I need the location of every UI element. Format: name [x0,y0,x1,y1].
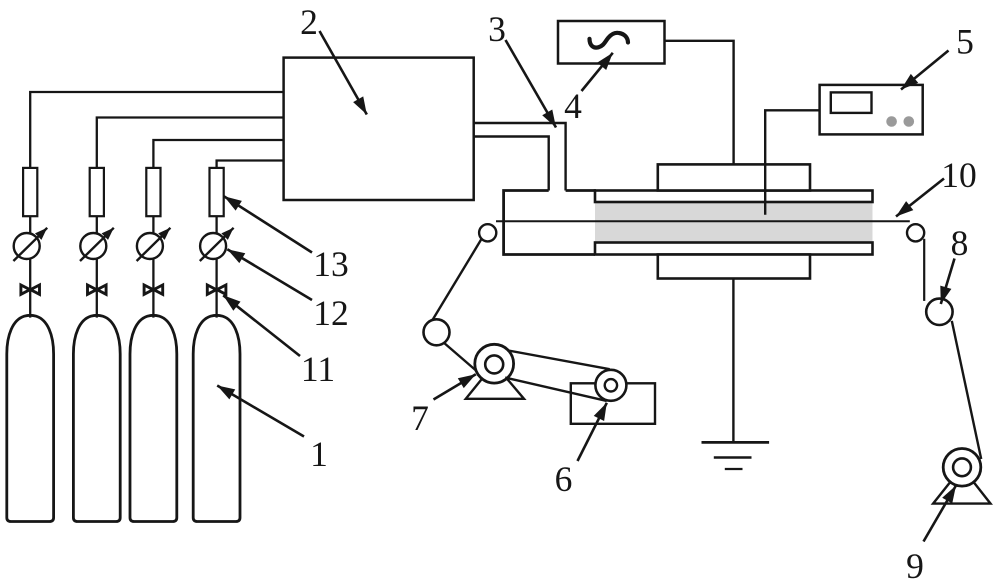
wire U4 to top electrode [665,41,734,165]
web segment idler to roller 7 [445,343,478,372]
pressure regulator 12 (line 4) [200,233,226,259]
web vertical right of chamber [923,239,925,301]
flow meter 13 (line 4) [210,168,224,216]
wire gas line 2 to controller [97,118,284,168]
top electrode block [658,164,810,190]
svg-text:7: 7 [411,398,429,438]
svg-text:12: 12 [313,293,349,333]
monitor U5 button 2 [904,116,915,127]
label 1 leader [217,386,304,437]
label 10 leader [896,179,944,217]
svg-text:4: 4 [564,86,582,126]
label 2 leader [320,31,367,115]
idler roller [424,319,450,345]
guide roller left of chamber [479,224,496,241]
monitor U5 screen [831,92,872,113]
web segment left roller to idler [429,239,482,326]
wire line 1 vertical through regulator [29,216,31,317]
valve 11 (line 4) [207,285,226,294]
label 6 leader [578,403,607,461]
roller 9 stand [933,467,990,503]
gas cylinder 1 (line 4) [193,315,240,521]
svg-text:2: 2 [300,2,318,42]
pipe 3 outer wall [474,123,566,191]
gas mixing controller U2 [284,58,474,200]
svg-text:6: 6 [555,459,573,499]
web segment roller 8 to roller 9 [952,321,981,459]
ground [702,441,770,444]
gas cylinder 1 (line 1) [7,315,54,521]
label 13 leader [224,196,312,252]
valve 11 (line 3) [144,285,163,294]
label 3 leader [506,40,557,128]
svg-text:5: 5 [956,22,974,62]
sine symbol in U4 [590,33,629,48]
monitor U5 [820,85,923,134]
roller 7 [475,344,514,383]
valve 11 (line 1) [21,285,40,294]
label 11 leader [223,295,300,356]
flow meter 13 (line 1) [23,168,37,216]
belt upper roller 7 to roller 6 [507,350,609,369]
gas cylinder 1 (line 2) [73,315,120,521]
svg-text:11: 11 [301,349,335,389]
label 9 leader [924,486,957,542]
flow meter 13 (line 2) [90,168,104,216]
film web 10 through chamber [496,220,910,222]
bottom electrode block [658,255,810,279]
guide roller right of chamber [907,224,924,241]
svg-text:8: 8 [951,223,969,263]
wire bottom electrode to ground [732,279,734,443]
drive unit box 6 [571,383,655,424]
label 12 leader [227,249,312,300]
top electrode plate [595,191,873,203]
monitor U5 button 1 [886,116,897,127]
wire line 3 vertical through regulator [152,216,154,317]
flow meter 13 (line 3) [146,168,160,216]
roller 8 [926,299,952,325]
roller 6 [595,370,626,401]
label 8 leader [941,259,955,305]
chamber end cap top right segment [566,189,596,192]
pressure regulator 12 (line 1) [14,233,40,259]
label 7 leader [434,374,476,399]
svg-text:1: 1 [310,434,328,474]
wire U5 probe into chamber [765,110,819,214]
plasma zone (grey) [595,202,873,244]
pipe 3 inner wall [474,137,549,191]
pressure regulator 12 (line 2) [80,233,106,259]
pressure regulator 12 (line 3) [137,233,163,259]
label 4 leader [582,53,613,91]
wire gas line 1 to controller [30,92,283,168]
svg-text:13: 13 [313,244,349,284]
svg-text:3: 3 [488,9,506,49]
roller 9 [943,449,981,487]
bottom electrode plate [595,243,873,255]
svg-text:10: 10 [941,155,977,195]
roller 7 stand [466,364,524,399]
valve 11 (line 2) [88,285,107,294]
belt lower roller 7 to roller 6 [505,378,607,401]
chamber end cap left wall [504,191,595,255]
gas cylinder 1 (line 3) [130,315,177,521]
label 5 leader [901,51,949,90]
wire line 2 vertical through regulator [96,216,98,317]
wire gas line 4 to controller [217,161,284,168]
wire gas line 3 to controller [153,140,283,168]
power source U4 [558,21,665,64]
svg-text:9: 9 [906,546,924,585]
wire line 4 vertical through regulator [215,216,217,317]
